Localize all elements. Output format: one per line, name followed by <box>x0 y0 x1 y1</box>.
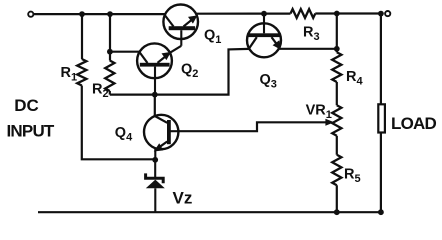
input terminal <box>28 12 33 17</box>
VR1 wiper arrow <box>325 119 334 126</box>
load box <box>378 104 385 132</box>
node: Q3 emitter/R4 top <box>334 46 340 52</box>
wire: node B from R2 bottom to Q3 collector <box>110 49 249 95</box>
resistor R2 <box>109 14 111 95</box>
node: rail/R2 <box>107 11 113 17</box>
wire: output node down to R4 node <box>336 14 338 49</box>
node: R2/Q2 collector <box>107 49 113 55</box>
wire: top rail from input terminal to Q1 collector <box>34 13 165 15</box>
transistor Q3 <box>247 14 281 58</box>
resistor R4 <box>336 49 338 106</box>
wire: R1 bottom down and across to zener node <box>82 86 155 160</box>
transistor Q2 <box>137 43 181 94</box>
resistor R3 <box>291 9 316 18</box>
svg-text:Vz: Vz <box>173 188 193 207</box>
load: wire from output corner through box to bottom rail <box>380 14 382 213</box>
node: bottom rail/R5 <box>334 209 340 215</box>
wire: Q4 base to VR1 wiper <box>178 122 327 131</box>
node: rail/R1 <box>79 11 85 17</box>
node: output corner <box>378 11 384 17</box>
transistor Q4 <box>144 115 178 160</box>
output terminal <box>385 11 390 16</box>
svg-text:INPUT: INPUT <box>7 121 55 140</box>
node: Q4 emitter/zener <box>152 157 158 163</box>
wire: bottom rail <box>38 211 381 213</box>
resistor R1 <box>81 14 83 59</box>
transistor Q1 <box>163 5 198 46</box>
wire: R3 right end to output corner <box>315 12 381 14</box>
wire: R2 to Q2 collector <box>110 51 140 53</box>
potentiometer VR1 body <box>332 105 341 136</box>
resistor R5 <box>336 136 338 212</box>
node: R3/R4/output <box>334 11 340 17</box>
node: bottom rail/load <box>378 209 384 215</box>
wire: top rail from Q1 emitter to R3 <box>196 13 291 15</box>
node: Q2 base/Q4 collector <box>152 92 158 98</box>
svg-text:LOAD: LOAD <box>391 114 436 133</box>
zener diode Vz <box>146 160 165 212</box>
wire: node B down to Q4 collector <box>154 95 156 116</box>
wire: Q3 emitter to R4 top node <box>280 48 337 50</box>
svg-text:DC: DC <box>14 96 39 115</box>
node: rail/Q3 base <box>261 11 267 17</box>
